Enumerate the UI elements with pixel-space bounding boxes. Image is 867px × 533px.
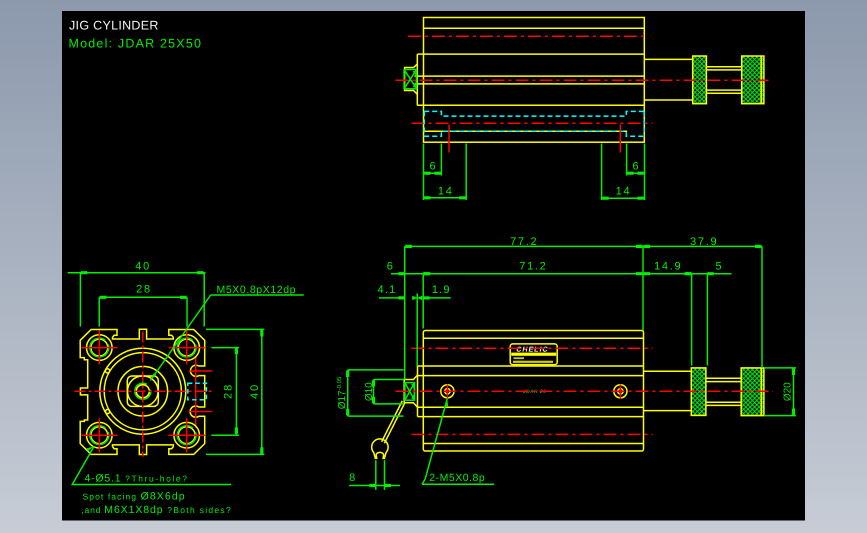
svg-text:37.9: 37.9	[690, 236, 718, 248]
top view slot edge line	[424, 130, 628, 132]
dimension dia17 line	[347, 370, 349, 416]
corner hole top-left outer	[87, 335, 113, 361]
CHELIC small text row 1	[514, 357, 525, 359]
extension line 77.2 left	[404, 246, 406, 379]
corner hole bottom-right outer	[174, 422, 200, 448]
svg-text:14: 14	[616, 185, 632, 197]
bottom view edge line 2	[423, 337, 643, 339]
dimension 6 arrows (bottom)	[398, 272, 429, 275]
dimension 14 right arrows	[602, 197, 644, 200]
hidden slot lower edge (cyan)	[424, 131, 644, 136]
upper ports centerline (red)	[408, 35, 648, 37]
extension line 5	[706, 274, 708, 366]
extension line 4.1/1.9 shared	[416, 294, 418, 367]
hidden slot upper edge (cyan)	[424, 111, 644, 116]
wrench handle	[382, 401, 405, 443]
dimension 5 arrows	[685, 272, 714, 275]
leader M5 to center	[150, 295, 210, 381]
svg-text:CHELIC: CHELIC	[516, 345, 548, 354]
top view body edge line 2	[424, 27, 645, 29]
top view body edge line 6 (boss bottom)	[417, 104, 644, 106]
leader 2-M5 bend	[422, 479, 425, 484]
top view body edge line 3 (boss top)	[417, 53, 644, 55]
dimension 8 line	[349, 485, 400, 487]
corner hole top-left thread arc	[90, 338, 109, 357]
screw hole right outer	[614, 385, 627, 398]
dimension 8 arrows	[369, 484, 391, 487]
extension lines right 40 dim	[206, 329, 264, 454]
bottom view rod bore upper	[418, 375, 644, 377]
dimension dia10 line	[373, 380, 375, 404]
dimension 40 right arrows	[260, 330, 263, 454]
slot row centerline (red)	[412, 122, 653, 124]
extension lines 28 top dim	[99, 297, 187, 326]
svg-text:4-Ø5.1 ?Thru-hole?: 4-Ø5.1 ?Thru-hole?	[85, 472, 189, 484]
corner hole top-left inner	[91, 339, 108, 356]
upper port centerline bottom view (red)	[412, 347, 653, 349]
hole cross bottom-right	[169, 418, 205, 452]
dimension 14 left line	[424, 197, 467, 199]
port fitting hex box (top view)	[404, 70, 417, 89]
port fitting cross X (bottom view)	[405, 383, 415, 401]
dimension 14 left arrows	[424, 196, 465, 199]
dimension 6 right line	[627, 172, 645, 174]
dimension 71.2 line	[423, 273, 643, 275]
dimension 4.1 arrows	[398, 296, 422, 301]
extension lines 40 top dim	[80, 273, 204, 327]
svg-text:1.9: 1.9	[432, 284, 451, 296]
dimension 28 right arrows	[235, 348, 238, 434]
knurled nut 2 inner edge (bottom view)	[760, 368, 762, 416]
bore circle outer	[100, 348, 186, 434]
extension lines 8 dim	[376, 460, 385, 490]
port fitting end arc (bottom view)	[412, 384, 415, 398]
corner hole bottom-right thread arc	[177, 426, 196, 445]
dimension 6 line (bottom)	[391, 273, 423, 275]
bottom view boss face	[417, 366, 419, 417]
port fitting end arc (top view)	[413, 72, 416, 87]
hole cross top-left	[82, 331, 118, 365]
svg-text:71.2: 71.2	[519, 261, 547, 273]
svg-text:Ø20: Ø20	[783, 382, 794, 401]
main centerline bottom view (red)	[396, 390, 774, 392]
dimension dia17 arrows	[346, 371, 349, 416]
extension lines dia17	[348, 370, 404, 416]
leader 4-hole callout	[72, 446, 231, 484]
leader M5 arrowhead	[150, 373, 156, 380]
hidden slot left end (cyan)	[423, 111, 425, 136]
corner hole top-right outer	[174, 335, 200, 361]
corner hole bottom-left inner	[91, 427, 108, 444]
dimension 1.9 arrows	[423, 296, 429, 299]
main horizontal centerline front view	[75, 390, 212, 392]
knurled nut 1 (top view)	[693, 56, 707, 104]
leader 2-M5	[422, 399, 494, 485]
svg-text:5: 5	[715, 261, 721, 273]
dimension 6 right arrows	[627, 172, 644, 175]
dimension dia10 arrows	[372, 380, 375, 403]
T-slot centerline lower	[189, 411, 213, 413]
extension lines left 6/14 dims	[424, 144, 467, 201]
extension line 71.2 left	[422, 274, 424, 329]
dimension 28 right line	[235, 348, 237, 436]
extension lines right 28 dim	[211, 348, 239, 436]
front flange outline	[80, 329, 205, 454]
rod circle inscribed	[128, 376, 159, 407]
middle circle	[118, 366, 168, 416]
svg-text:Model: JDAR 25X50: Model: JDAR 25X50	[69, 37, 203, 51]
sensor T-slot centerline vertical	[195, 357, 197, 428]
screw hole left centerline	[446, 384, 448, 398]
right slot hole centerline (red)	[619, 125, 621, 153]
dimension 1.9 line	[423, 297, 451, 299]
hole cross top-right	[169, 331, 205, 365]
dimension 5 line	[692, 273, 732, 275]
dimension 40 right line	[261, 329, 263, 454]
svg-text:6: 6	[429, 160, 435, 172]
dimension 37.9 line	[643, 245, 762, 247]
top view bore line lower	[415, 83, 645, 85]
port fitting cross X (top view)	[404, 70, 417, 89]
port fitting outline (top view)	[405, 64, 418, 95]
dimension 40 top line	[68, 272, 206, 274]
knurled nut 2 inner edge (top view)	[760, 56, 762, 104]
corner hole bottom-left outer	[87, 422, 113, 448]
corner hole bottom-left thread arc	[90, 426, 109, 445]
top view bore line upper	[415, 75, 645, 77]
rod inner circle	[136, 385, 149, 398]
threaded rod lines (top view)	[706, 67, 741, 94]
knurled nut 1 (bottom view)	[691, 368, 706, 416]
svg-text:28: 28	[223, 383, 235, 399]
svg-text:8: 8	[349, 472, 355, 484]
port fitting hex box (bottom view)	[405, 383, 415, 401]
dimension dia20 arrows	[792, 369, 795, 415]
dimension 37.9 arrows	[644, 245, 762, 248]
svg-text:14: 14	[438, 185, 454, 197]
port fitting outline (bottom view)	[404, 375, 417, 407]
CHELIC label band	[511, 353, 556, 356]
svg-text:28: 28	[136, 283, 152, 295]
dimension 14 right line	[602, 197, 645, 199]
dimension 4.1 line	[379, 297, 405, 299]
svg-text:Ø10: Ø10	[364, 382, 375, 401]
hidden slot right end (cyan)	[643, 111, 645, 136]
bottom view body outline	[423, 331, 643, 452]
svg-text:40: 40	[135, 260, 151, 272]
left slot hole centerline (red)	[448, 125, 450, 153]
bore circle inner	[104, 353, 181, 430]
hole cross bottom-left	[82, 418, 118, 452]
CHELIC small text row 2	[513, 361, 553, 363]
knurled nut 2 (top view)	[742, 56, 764, 104]
top view body outline	[424, 18, 645, 143]
svg-text:JIG CYLINDER: JIG CYLINDER	[69, 19, 159, 33]
screw hole right centerline	[619, 384, 621, 398]
extension lines right 6/14 dims	[602, 144, 645, 201]
dimension 77.2 arrows	[405, 245, 642, 248]
dimension 14.9 line	[643, 273, 692, 275]
screw hole left outer	[441, 385, 454, 398]
leader 4-hole arrowhead	[86, 446, 94, 451]
svg-text:,and M6X1X8dp ?Both sides?: ,and M6X1X8dp ?Both sides?	[81, 504, 232, 516]
corner hole bottom-right inner	[178, 427, 195, 444]
dimension 28 top arrows	[100, 296, 186, 299]
rod section lines (bottom view)	[644, 371, 692, 410]
dimension 6 left arrows	[424, 172, 440, 175]
T-slot centerline upper	[189, 370, 213, 372]
svg-text:M5X0.8pX12dp: M5X0.8pX12dp	[217, 284, 297, 296]
extension lines dia20	[765, 368, 796, 416]
extension line 77.2/37.9 middle	[642, 246, 644, 330]
CHELIC label box	[510, 344, 557, 365]
main vertical centerline front view	[142, 332, 144, 457]
rod square flats	[127, 376, 158, 406]
extension line 37.9 right	[761, 246, 763, 368]
dimension 77.2 line	[405, 245, 643, 247]
extension lines dia10	[374, 380, 405, 404]
screw hole left inner	[445, 389, 450, 394]
svg-text:40: 40	[249, 383, 261, 399]
svg-text:4.1: 4.1	[378, 284, 397, 296]
screw hole right inner	[618, 389, 623, 394]
dimension dia20 line	[793, 368, 795, 416]
pin hole upper left	[106, 369, 110, 373]
extension line 14.9	[691, 274, 693, 366]
pin hole lower left	[106, 409, 110, 413]
svg-text:Spot facing Ø8X6dp: Spot facing Ø8X6dp	[83, 491, 186, 503]
dimension 71.2 arrows	[424, 272, 642, 275]
corner hole top-right thread arc	[177, 338, 196, 357]
dimension 14.9 arrows	[644, 272, 691, 275]
top view boss face	[416, 54, 418, 105]
dimension 28 top line	[99, 296, 187, 298]
svg-text:6: 6	[633, 160, 639, 172]
lower port centerline bottom view (red)	[412, 433, 653, 435]
leader 2-M5 arrowhead	[445, 399, 448, 407]
bottom view rod bore lower	[418, 406, 644, 408]
main centerline top view (red)	[396, 79, 773, 81]
hidden sensor slot rect (cyan)	[188, 383, 207, 400]
bottom view boss bottom line	[418, 416, 644, 418]
bottom view edge line 7	[423, 443, 643, 445]
bottom view boss top line	[418, 365, 644, 367]
svg-text:2-M5X0.8p: 2-M5X0.8p	[429, 472, 485, 484]
wrench head	[372, 439, 388, 458]
knurled nut 2 (bottom view)	[741, 368, 764, 416]
svg-text:6: 6	[387, 261, 393, 273]
dimension 40 top arrows	[81, 271, 204, 274]
svg-text:14.9: 14.9	[654, 261, 682, 273]
corner hole top-right inner	[178, 339, 195, 356]
dimension 6 left line	[424, 172, 442, 174]
threaded rod lines (bottom view)	[706, 378, 741, 405]
label M5 underline	[211, 294, 304, 296]
rod thread circle green	[135, 383, 151, 399]
rod section lines (top view)	[644, 59, 692, 100]
svg-text:77.2: 77.2	[510, 236, 538, 248]
